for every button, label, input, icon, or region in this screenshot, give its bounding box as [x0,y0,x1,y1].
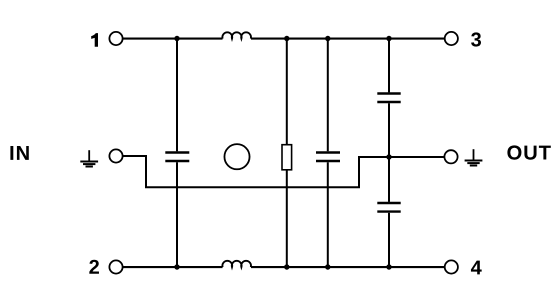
wire bottom rail left (terminal 2 to inductor L2) [123,266,223,268]
pin number 2 [89,260,99,274]
ground symbol IN [80,150,98,166]
wire bottom rail right (inductor L2 to terminal 4) [251,266,445,268]
wire resistor R1 upper lead [286,39,288,145]
wire resistor R1 lower lead [286,170,288,267]
capacitor C1 [165,153,189,162]
IN ground terminal [109,149,122,162]
terminal 4 [445,260,458,273]
capacitor C3 [377,94,400,103]
surge arrester (circle symbol) [224,144,249,169]
wire between C3 and C4 (through mid junction) [388,103,390,202]
terminal 1 [109,32,122,45]
wire capacitor C1 lower lead [176,162,178,267]
wire top rail left (terminal 1 to inductor L1) [123,38,223,40]
ground symbol OUT [465,149,483,165]
junction dot top rail at C2 [325,36,330,41]
terminal 2 [109,260,122,273]
ground wire to OUT terminal [389,156,444,158]
junction dot top rail at C1 [174,36,179,41]
wire capacitor C4 lower lead [388,213,390,267]
junction dot bottom rail at C2 [325,264,330,269]
OUT ground terminal [444,150,457,163]
capacitor C2 [316,153,340,162]
junction dot bottom rail at R1 [284,264,289,269]
junction dot bottom rail at C1 [174,264,179,269]
junction dot bottom rail at C4 [386,264,391,269]
inductor L1 [222,32,251,38]
wire top rail right (inductor L1 to terminal 3) [251,38,445,40]
junction dot mid ground at C3/C4 [386,154,391,159]
resistor R1 [282,145,292,170]
ground wire from IN terminal [123,156,389,187]
junction dot top rail at C3 [386,36,391,41]
capacitor C4 [377,203,400,212]
wire capacitor C1 upper lead [176,39,178,152]
wire capacitor C2 upper lead [327,39,329,152]
pin number 4 [471,261,482,275]
junction dot top rail at R1 [284,36,289,41]
label OUT [507,145,550,159]
label IN [10,146,28,160]
terminal 3 [445,32,458,45]
inductor L2 [222,261,251,267]
pin number 3 [471,32,481,46]
wire capacitor C2 lower lead [327,162,329,267]
pin number 1 [91,33,98,47]
wire capacitor C3 upper lead [388,39,390,93]
